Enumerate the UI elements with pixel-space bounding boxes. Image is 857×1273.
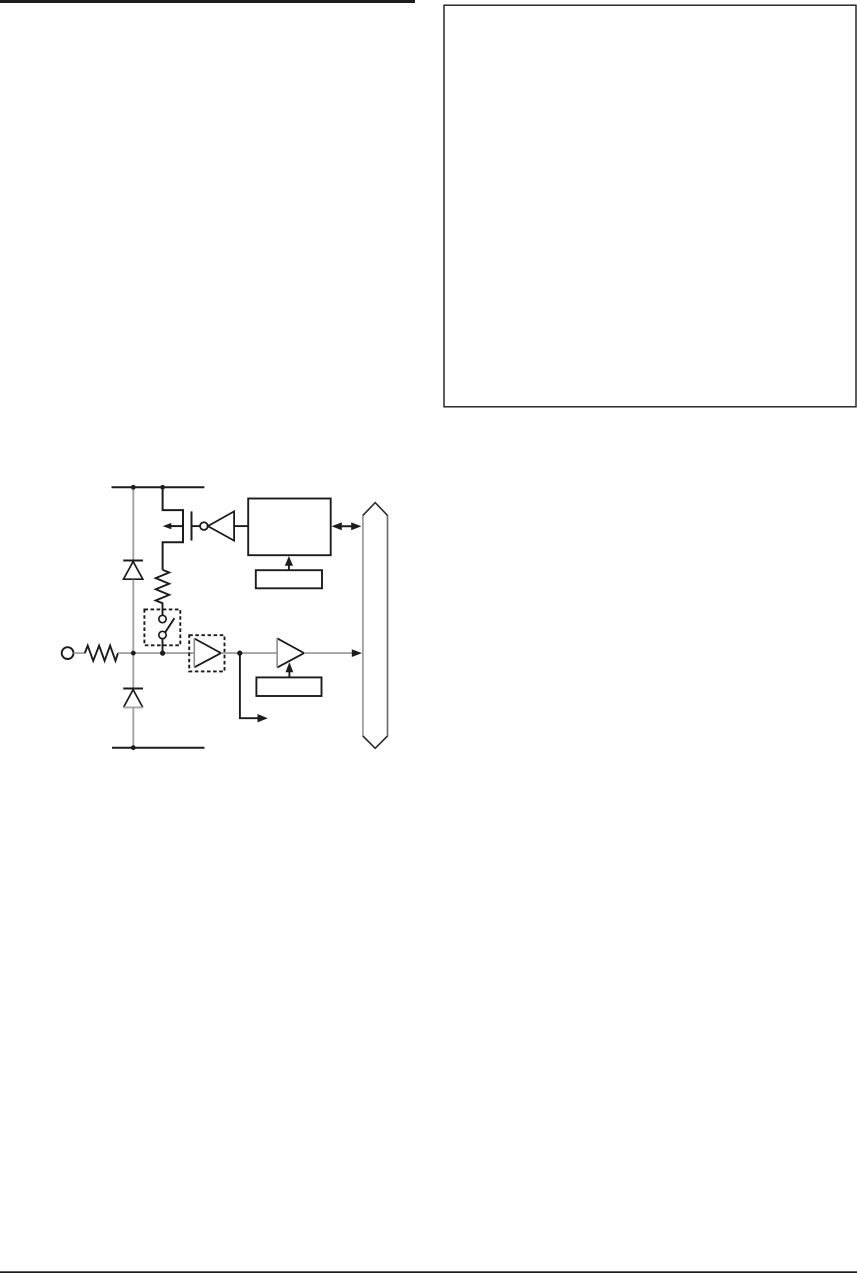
junction pin node / ESD branch xyxy=(131,651,136,656)
wire pin net vertical (top diode to pin node) xyxy=(132,580,134,689)
register block U2 xyxy=(248,499,331,556)
dashed enclosure input buffer xyxy=(189,635,224,671)
resistor R1 series pin resistor xyxy=(85,646,118,661)
wire pad to series resistor xyxy=(74,652,85,654)
pin terminal pad xyxy=(62,647,74,659)
diode D1 pin-to-VDD clamp xyxy=(123,561,143,580)
wire VDD rail xyxy=(112,486,205,488)
switch S1 pull-up enable xyxy=(159,615,175,653)
control box 2 xyxy=(256,677,321,696)
resistor R2 pull-up xyxy=(156,570,170,616)
diode D2 VSS-to-pin clamp xyxy=(123,689,143,708)
wire buffer output node xyxy=(221,652,277,654)
control box 1 xyxy=(256,570,322,588)
wire buffer to bus with arrow xyxy=(304,649,362,657)
wire pin node horizontal xyxy=(118,652,194,654)
junction on VSS rail xyxy=(131,745,136,750)
transistor Q1 P-channel pull-up xyxy=(163,487,192,569)
wire inverter input from register xyxy=(234,525,248,527)
wire pin net vertical (VDD rail to top diode) xyxy=(132,487,134,560)
dashed enclosure pull-up enable switch xyxy=(144,609,180,645)
bidirectional arrow register to data bus xyxy=(332,522,362,530)
junction on VDD rail at ESD diode branch xyxy=(131,485,136,490)
junction on VDD rail at pull-up branch xyxy=(160,485,165,490)
wire gate lead xyxy=(192,525,201,527)
junction pin node / pull-up branch xyxy=(160,651,165,656)
data bus xyxy=(363,503,388,749)
arrow control box 2 to buffer xyxy=(286,662,294,677)
junction buffer output node xyxy=(237,651,242,656)
wire branch to internal logic with arrow xyxy=(240,653,268,722)
buffer U3 input buffer xyxy=(194,639,221,668)
arrow control box 1 to register xyxy=(285,556,293,570)
inverter U1 driving pull-up gate xyxy=(200,511,234,540)
buffer U4 schmitt trigger xyxy=(277,638,304,667)
wire VSS rail xyxy=(112,747,205,749)
wire pin net vertical (bottom diode to VSS rail) xyxy=(132,708,134,748)
